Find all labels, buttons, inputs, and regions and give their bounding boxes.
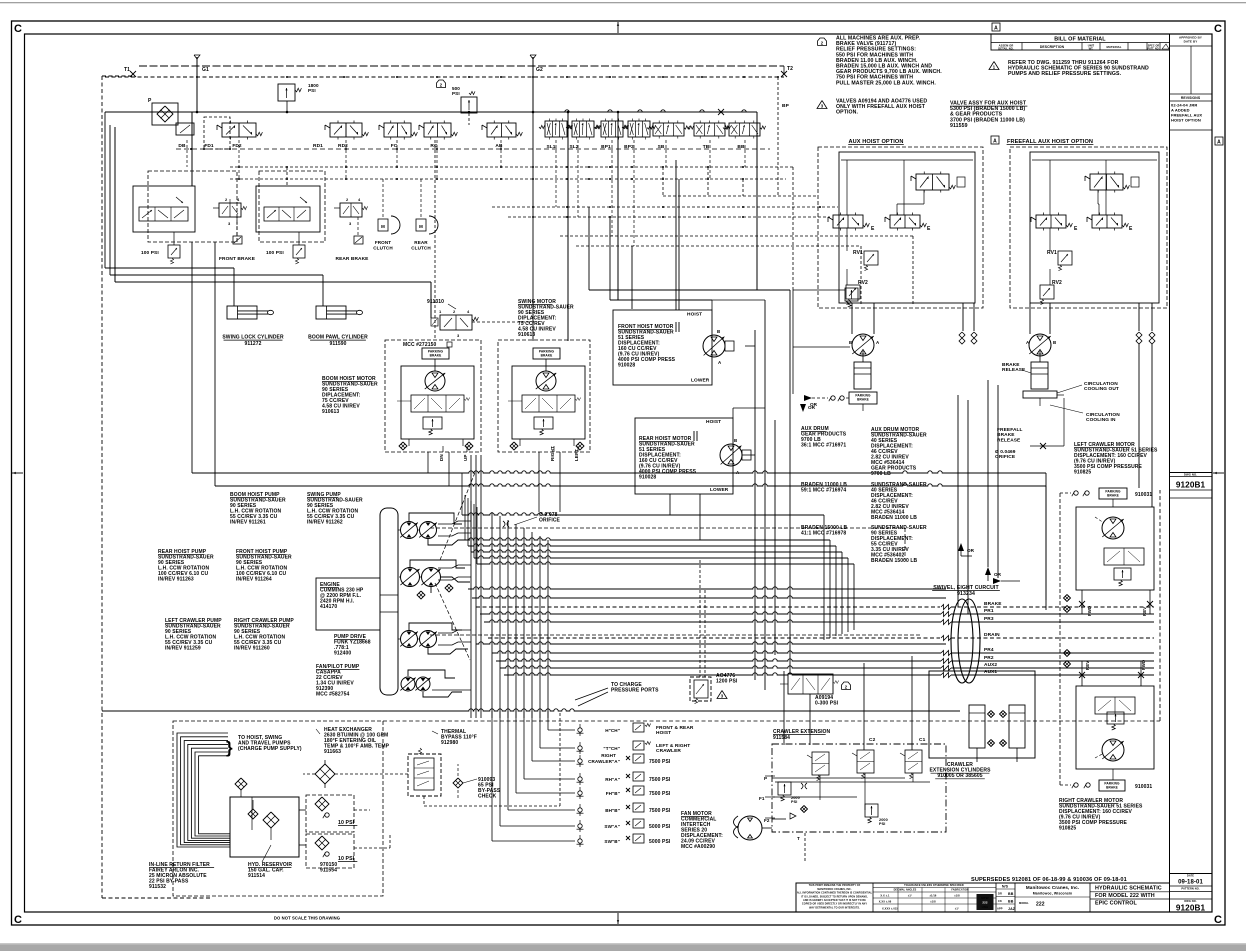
svg-text:IT IS LOANED, SUBJECT TO RETUR: IT IS LOANED, SUBJECT TO RETURN UPON DEM… bbox=[801, 895, 868, 898]
svg-text:FOR MODEL 222 WITH: FOR MODEL 222 WITH bbox=[1095, 893, 1155, 899]
svg-text:59:1 MCC #716974: 59:1 MCC #716974 bbox=[801, 488, 846, 494]
svg-text:REAR: REAR bbox=[414, 240, 428, 245]
fd1 dashed box bbox=[204, 117, 230, 149]
right crawler bottom circuit bbox=[1076, 686, 1154, 769]
dwg number box bottom bbox=[1170, 898, 1213, 900]
svg-text:7500 PSI: 7500 PSI bbox=[649, 791, 671, 797]
svg-text:PR1: PR1 bbox=[984, 608, 994, 614]
svg-text:911590: 911590 bbox=[329, 341, 346, 347]
svg-text:100 PSI: 100 PSI bbox=[266, 250, 284, 256]
svg-text:±1/8: ±1/8 bbox=[954, 894, 960, 898]
svg-text:THIS PRINT REMAINS THE PROPERT: THIS PRINT REMAINS THE PROPERTY OF bbox=[809, 884, 861, 887]
svg-text:MCC #A00290: MCC #A00290 bbox=[681, 844, 715, 850]
aux drum relief bbox=[845, 288, 858, 301]
svg-text:912980: 912980 bbox=[441, 740, 458, 746]
pump control valve body 1 bbox=[133, 186, 195, 232]
svg-text:IN/REV 911261: IN/REV 911261 bbox=[230, 520, 266, 526]
svg-text:B: B bbox=[717, 329, 720, 334]
pilot bus row 1 bbox=[230, 166, 793, 168]
svg-text:100 PSI: 100 PSI bbox=[141, 250, 159, 256]
swing lock cylinder bbox=[105, 267, 234, 269]
svg-text:SW"B": SW"B" bbox=[604, 839, 620, 844]
svg-text:LOWER: LOWER bbox=[710, 487, 729, 493]
vent G1 bbox=[196, 57, 198, 112]
svg-text:CLUTCH: CLUTCH bbox=[411, 246, 431, 251]
svg-text:E: E bbox=[927, 226, 931, 232]
pump drain dashed diagonal bbox=[435, 583, 470, 660]
rear clutch bbox=[416, 219, 426, 231]
svg-text:7500 PSI: 7500 PSI bbox=[649, 759, 671, 765]
svg-text:}: } bbox=[226, 738, 233, 757]
left return dashed loop bbox=[101, 76, 103, 898]
svg-text:PR2: PR2 bbox=[984, 655, 994, 661]
window top edge bbox=[0, 2, 1246, 3]
svg-text:911559: 911559 bbox=[950, 123, 968, 129]
valve SB bbox=[653, 123, 684, 136]
left center tick mark bbox=[12, 472, 23, 474]
valve drop wires bbox=[186, 140, 188, 167]
svg-text:CLUTCH: CLUTCH bbox=[373, 246, 393, 251]
svg-text:PSI: PSI bbox=[452, 91, 460, 96]
swing motor circuit bbox=[498, 340, 590, 452]
svg-text:BRAKE: BRAKE bbox=[430, 354, 442, 358]
svg-text:FREEFALL: FREEFALL bbox=[997, 427, 1023, 433]
svg-text:FH"B": FH"B" bbox=[606, 791, 620, 796]
right center tick mark bbox=[1213, 472, 1224, 474]
crawler ext cylinders bbox=[969, 705, 985, 748]
svg-text:911532: 911532 bbox=[149, 884, 166, 890]
svg-text:910031: 910031 bbox=[1135, 784, 1152, 790]
svg-text:E: E bbox=[1129, 226, 1133, 232]
svg-text:RV1: RV1 bbox=[853, 250, 863, 256]
svg-text:910031: 910031 bbox=[1135, 492, 1152, 498]
svg-text:A: A bbox=[1217, 140, 1221, 146]
svg-text:BRAKE: BRAKE bbox=[984, 601, 1002, 607]
svg-text:HOIST: HOIST bbox=[706, 419, 721, 425]
svg-text:HOIST OPTION: HOIST OPTION bbox=[1171, 118, 1201, 123]
motor drop wires boom swing bbox=[427, 452, 429, 473]
thermal bypass valve bbox=[408, 754, 441, 796]
aux brake cylinder bbox=[854, 362, 871, 389]
aux drum or arrow down bbox=[800, 404, 806, 412]
svg-text:BP: BP bbox=[782, 103, 790, 109]
svg-text:10 PSI: 10 PSI bbox=[338, 820, 355, 826]
svg-text:36:1 MCC #716971: 36:1 MCC #716971 bbox=[801, 443, 846, 449]
svg-text:RH"A": RH"A" bbox=[605, 777, 620, 782]
port symbols column bbox=[633, 723, 644, 732]
aux quick disconnects bbox=[959, 332, 965, 338]
svg-text:RD2: RD2 bbox=[338, 143, 348, 149]
svg-text:G2: G2 bbox=[536, 67, 543, 73]
top center tick mark bbox=[617, 22, 619, 33]
svg-text:FD2: FD2 bbox=[232, 143, 242, 149]
svg-text:BB: BB bbox=[1008, 892, 1014, 896]
svg-text:AUX1: AUX1 bbox=[984, 669, 997, 675]
svg-text:PRESSURE PORTS: PRESSURE PORTS bbox=[611, 688, 659, 694]
zone marker A top bbox=[992, 23, 1000, 31]
svg-text:BRAKE: BRAKE bbox=[1107, 494, 1119, 498]
svg-text:911584: 911584 bbox=[773, 735, 790, 741]
a04776 pilot dashes bbox=[699, 560, 701, 677]
hoist motor wires bbox=[711, 300, 713, 310]
svg-text:PATT. NO.: PATT. NO. bbox=[1147, 47, 1159, 50]
svg-text:RIGHT: RIGHT bbox=[601, 753, 616, 758]
svg-text:X.XX ±.06: X.XX ±.06 bbox=[879, 900, 892, 904]
svg-text:X.XXX ±.015: X.XXX ±.015 bbox=[882, 907, 898, 911]
svg-text:IN/REV 911263: IN/REV 911263 bbox=[158, 577, 194, 583]
svg-text:P: P bbox=[764, 776, 767, 781]
central vertical bundle bbox=[470, 455, 472, 718]
swivel ellipses bbox=[951, 599, 973, 683]
svg-text:Ø 0.0469: Ø 0.0469 bbox=[995, 449, 1016, 455]
svg-text:DO NOT SCALE THIS DRAWING: DO NOT SCALE THIS DRAWING bbox=[274, 916, 340, 921]
svg-text:DN: DN bbox=[439, 454, 444, 461]
aux pilot riser BP bbox=[777, 77, 779, 196]
svg-text:BRAKE: BRAKE bbox=[1002, 362, 1020, 368]
svg-text:BOOM PAWL CYLINDER: BOOM PAWL CYLINDER bbox=[308, 335, 368, 341]
svg-text:FRONT: FRONT bbox=[375, 240, 391, 245]
freefall valves bbox=[1090, 174, 1123, 190]
svg-text:AUX HOIST OPTION: AUX HOIST OPTION bbox=[848, 139, 903, 145]
left pump control dashed box 2 bbox=[259, 171, 325, 242]
svg-text:MTW: MTW bbox=[981, 896, 989, 900]
valve BB bbox=[729, 123, 760, 136]
reservoir filters bbox=[248, 809, 258, 819]
reservoir outlet wires bbox=[299, 809, 306, 811]
svg-text:Manitowoc, Wisconsin: Manitowoc, Wisconsin bbox=[1033, 892, 1073, 896]
svg-text:DR: DR bbox=[998, 892, 1002, 896]
main return line bbox=[102, 709, 960, 711]
freefall quick disconnects bbox=[1136, 332, 1142, 338]
svg-text:USA: USA bbox=[982, 905, 989, 909]
svg-text:911310: 911310 bbox=[427, 299, 444, 305]
svg-text:M: M bbox=[381, 224, 385, 229]
svg-text:SWIVEL, EIGHT CURCUIT: SWIVEL, EIGHT CURCUIT bbox=[933, 585, 999, 591]
svg-text:IN/REV 911262: IN/REV 911262 bbox=[307, 520, 343, 526]
freefall brake cylinder bbox=[1031, 362, 1048, 389]
svg-text:5000 PSI: 5000 PSI bbox=[649, 824, 671, 830]
svg-text:414170: 414170 bbox=[320, 604, 337, 610]
svg-text:N/S: N/S bbox=[1002, 884, 1009, 888]
svg-text:IN/REV 911264: IN/REV 911264 bbox=[236, 577, 272, 583]
svg-text:FD1: FD1 bbox=[204, 143, 214, 149]
svg-text:AUX2: AUX2 bbox=[984, 662, 997, 668]
swing circuit feed wires bbox=[532, 112, 534, 341]
svg-text:COPIED OR USED DIRECTLY OR IND: COPIED OR USED DIRECTLY OR INDIRECTLY IN… bbox=[802, 903, 867, 906]
note 1 triangle bbox=[989, 62, 999, 70]
svg-text:AND IS HEREBY ACCEPTED THAT IT: AND IS HEREBY ACCEPTED THAT IT IS NOT TO… bbox=[803, 899, 866, 902]
svg-text:1200 PSI: 1200 PSI bbox=[716, 679, 738, 685]
svg-text:COOLING OUT: COOLING OUT bbox=[1084, 386, 1119, 392]
bottom gray scrollbar strip bbox=[0, 944, 1246, 951]
note 2 bubble small bbox=[437, 80, 446, 88]
pilot bus row 3 bbox=[492, 206, 838, 208]
check column feed wires bbox=[547, 711, 549, 730]
extension port lines bbox=[772, 777, 905, 779]
svg-text:OPTION.: OPTION. bbox=[836, 110, 858, 116]
valve AB bbox=[487, 123, 516, 137]
svg-text:(CHARGE PUMP SUPPLY): (CHARGE PUMP SUPPLY) bbox=[238, 746, 302, 752]
svg-text:CIRCULATION: CIRCULATION bbox=[1086, 412, 1120, 418]
svg-text:FWD: FWD bbox=[1087, 606, 1092, 616]
svg-text:IN/REV 911260: IN/REV 911260 bbox=[234, 646, 270, 652]
freefall dashed box bbox=[1010, 147, 1167, 308]
stamp block bbox=[977, 894, 994, 910]
svg-text:9120B1: 9120B1 bbox=[1176, 904, 1206, 913]
swivel rows bbox=[476, 606, 940, 608]
bottom crawler parking brake bbox=[1099, 780, 1125, 791]
svg-text:A: A bbox=[993, 139, 997, 145]
rear hoist drop stubs bbox=[669, 494, 671, 515]
rear brake port symbol bbox=[354, 236, 363, 244]
svg-text:DESCRIPTION: DESCRIPTION bbox=[1040, 45, 1065, 49]
svg-text:A: A bbox=[994, 26, 998, 32]
note 2 hexagon bbox=[818, 38, 827, 46]
svg-text:910028: 910028 bbox=[618, 363, 635, 369]
aux hoist option inner box bbox=[839, 152, 975, 303]
front hoist motor box bbox=[613, 310, 712, 385]
svg-text:WAY DETRIMENTAL TO OUR INTERES: WAY DETRIMENTAL TO OUR INTERESTS. bbox=[809, 906, 860, 909]
svg-text:C: C bbox=[14, 23, 22, 35]
svg-text:H"CH": H"CH" bbox=[605, 728, 620, 733]
sl bb dashed subrow bbox=[176, 148, 770, 150]
svg-text:BRAKE: BRAKE bbox=[857, 398, 869, 402]
svg-text:EPIC CONTROL: EPIC CONTROL bbox=[1095, 901, 1138, 907]
svg-text:M: M bbox=[419, 224, 423, 229]
svg-text:MATERIAL: MATERIAL bbox=[1106, 45, 1121, 49]
approval box bbox=[1170, 45, 1213, 47]
svg-text:Manitowoc Cranes, Inc.: Manitowoc Cranes, Inc. bbox=[1026, 885, 1079, 890]
svg-text:B: B bbox=[734, 438, 737, 443]
svg-text:LOWER: LOWER bbox=[691, 378, 710, 384]
svg-text:9700 LB: 9700 LB bbox=[871, 471, 891, 477]
valve RD1 RD2 bbox=[330, 123, 362, 137]
svg-text:09-18-01: 09-18-01 bbox=[1178, 880, 1203, 886]
boom pawl cylinder bbox=[110, 274, 323, 276]
svg-text:F1: F1 bbox=[759, 796, 765, 801]
svg-text:CHECK: CHECK bbox=[478, 794, 497, 800]
svg-text:PSI: PSI bbox=[308, 88, 316, 93]
pump control valve body 2 bbox=[256, 186, 320, 232]
heat exchanger symbol bbox=[315, 764, 335, 784]
svg-text:910028: 910028 bbox=[639, 475, 656, 481]
svg-text:B: B bbox=[1053, 340, 1056, 345]
svg-text:ALL INFORMATION CONTAINED THER: ALL INFORMATION CONTAINED THEREON IS CON… bbox=[797, 892, 873, 895]
svg-text:7500 PSI: 7500 PSI bbox=[649, 777, 671, 783]
svg-text:DETAIL NO.: DETAIL NO. bbox=[998, 46, 1014, 50]
rear hoist motor box bbox=[635, 418, 733, 494]
boom hoist motor circuit bbox=[385, 340, 481, 452]
crawler ext cylinder enclosure bbox=[929, 671, 1035, 758]
svg-text:ORIFICE: ORIFICE bbox=[539, 518, 561, 524]
svg-text:APP: APP bbox=[997, 907, 1003, 911]
relief valve 1800 psi bbox=[278, 84, 295, 101]
svg-text:910825: 910825 bbox=[1074, 470, 1091, 476]
zone marker A right margin bbox=[1215, 137, 1223, 145]
extension reliefs bbox=[778, 782, 791, 795]
svg-text:DWG NO.: DWG NO. bbox=[1184, 899, 1197, 903]
dwg no box mid right bbox=[1170, 472, 1213, 474]
svg-text:LEFT & RIGHT: LEFT & RIGHT bbox=[656, 743, 690, 749]
third cylinder feed line bbox=[114, 127, 116, 282]
reservoir area dashed box bbox=[173, 721, 383, 896]
node T1 bbox=[130, 71, 136, 77]
svg-text:911272: 911272 bbox=[244, 341, 261, 347]
fan pilot pumps bbox=[401, 677, 415, 691]
thermal bypass connections bbox=[423, 796, 425, 806]
svg-text:±1/16: ±1/16 bbox=[930, 894, 937, 898]
sl bp solid drops bbox=[567, 112, 569, 341]
svg-text:MCC #272150: MCC #272150 bbox=[403, 342, 436, 348]
aux hoist option dashed box bbox=[818, 147, 983, 308]
svg-text:910825: 910825 bbox=[1059, 826, 1076, 832]
svg-text:E: E bbox=[871, 226, 875, 232]
top crawler fwd rev bbox=[1079, 601, 1085, 607]
drain dashed bus bbox=[383, 720, 1160, 722]
left feeder wires bbox=[104, 112, 106, 268]
svg-text:PUMPS AND RELIEF PRESSURE SETT: PUMPS AND RELIEF PRESSURE SETTINGS. bbox=[1008, 71, 1122, 77]
svg-text:RD1: RD1 bbox=[313, 143, 323, 149]
svg-text:9120B1: 9120B1 bbox=[1176, 481, 1206, 490]
pilot bus row 5 bbox=[560, 235, 913, 237]
svg-text:OR: OR bbox=[808, 405, 816, 410]
valve BP1 BP2 bbox=[601, 121, 623, 137]
extension valve wires bbox=[775, 781, 930, 783]
rear brake valve bbox=[340, 203, 362, 217]
left pump control dashed box 1 bbox=[148, 171, 237, 242]
svg-text:REV: REV bbox=[1085, 661, 1090, 670]
valve TB bbox=[694, 123, 725, 136]
svg-text:PATTERN NO.: PATTERN NO. bbox=[1181, 886, 1199, 890]
svg-text:E: E bbox=[1074, 226, 1078, 232]
svg-text:FREEFALL AUX HOIST OPTION: FREEFALL AUX HOIST OPTION bbox=[1007, 139, 1093, 145]
svg-text:G1: G1 bbox=[202, 67, 209, 73]
svg-text:BH"B": BH"B" bbox=[605, 808, 620, 813]
boom swing tandem pumps bbox=[401, 522, 418, 539]
note 2 hexagon small bbox=[842, 682, 851, 690]
svg-text:REVISIONS: REVISIONS bbox=[1181, 96, 1201, 100]
right margin strip bbox=[1169, 34, 1171, 912]
svg-text:HYDRAULIC SCHEMATIC: HYDRAULIC SCHEMATIC bbox=[1095, 886, 1162, 892]
svg-text:BRAKE: BRAKE bbox=[997, 432, 1015, 438]
valve DB bbox=[176, 123, 194, 135]
pump output stubs bbox=[438, 521, 471, 524]
svg-text:222: 222 bbox=[982, 901, 988, 905]
pilot bus row 2 bbox=[230, 178, 786, 180]
freefall brake plate bbox=[1023, 391, 1057, 398]
front brake port symbol bbox=[233, 236, 242, 244]
fan motor symbol bbox=[738, 816, 762, 840]
main line drop right bbox=[756, 112, 758, 290]
check valve column bbox=[578, 728, 582, 732]
svg-text:F2: F2 bbox=[764, 818, 770, 823]
front brake valve bbox=[219, 203, 241, 217]
charge supply nest lines bbox=[177, 733, 230, 847]
svg-text:IN/REV 911259: IN/REV 911259 bbox=[165, 646, 201, 652]
pilot bus row 4 bbox=[508, 216, 830, 218]
date box bbox=[1170, 873, 1213, 875]
orifice 0.078 mark bbox=[503, 521, 509, 527]
svg-text:DATE BY: DATE BY bbox=[1184, 40, 1198, 44]
svg-text:CRAWLER"A": CRAWLER"A" bbox=[588, 759, 620, 764]
engine box bbox=[316, 578, 380, 630]
hydraulic reservoir bbox=[230, 797, 299, 857]
svg-text:JAZ: JAZ bbox=[1008, 907, 1016, 911]
bill of material table bbox=[991, 34, 1170, 50]
svg-text:DRAIN: DRAIN bbox=[984, 632, 1000, 638]
svg-text:DECIMAL ANGLES: DECIMAL ANGLES bbox=[894, 889, 917, 892]
svg-text:911514: 911514 bbox=[248, 873, 265, 879]
freefall motor circle bbox=[1029, 334, 1051, 356]
svg-text:±1°: ±1° bbox=[908, 894, 912, 898]
svg-text:7500 PSI: 7500 PSI bbox=[649, 808, 671, 814]
svg-text:T: T bbox=[797, 836, 800, 841]
crawler extension valve box bbox=[772, 744, 946, 832]
svg-text:912400: 912400 bbox=[334, 651, 351, 657]
dashed bus rows center bbox=[430, 527, 905, 529]
svg-text:PSI: PSI bbox=[879, 822, 885, 826]
svg-text:HOIST: HOIST bbox=[687, 312, 702, 318]
svg-text:DATE: DATE bbox=[1187, 874, 1194, 878]
valve FC bbox=[384, 123, 411, 137]
svg-text:BRAKE: BRAKE bbox=[541, 354, 553, 358]
or arrows near swivel bbox=[958, 543, 964, 551]
hoist feed columns bbox=[675, 160, 677, 310]
svg-text:BB: BB bbox=[1008, 900, 1014, 904]
aux drum feed wires bbox=[792, 290, 794, 394]
svg-text:PR4: PR4 bbox=[984, 647, 994, 653]
title block outline bbox=[796, 883, 1170, 912]
svg-text:RV1: RV1 bbox=[1047, 250, 1057, 256]
svg-text:C2: C2 bbox=[869, 737, 876, 743]
vent G2 bbox=[532, 57, 534, 112]
svg-text:WT.: WT. bbox=[1089, 46, 1094, 50]
svg-text:FWD: FWD bbox=[1141, 660, 1146, 670]
node T2 bbox=[781, 71, 787, 77]
svg-text:±1°: ±1° bbox=[955, 907, 959, 911]
note 3 triangle bbox=[817, 101, 827, 109]
svg-text:DWG NO.: DWG NO. bbox=[1184, 473, 1197, 477]
tank line T1-T2 bbox=[139, 65, 784, 67]
bundle rows to swivel upper bbox=[468, 587, 946, 589]
svg-text:COOLING IN: COOLING IN bbox=[1086, 417, 1116, 423]
svg-text:HOIST: HOIST bbox=[656, 730, 671, 736]
bottom crawler fwd rev bbox=[1079, 672, 1085, 678]
valve FD1 FD2 bbox=[222, 123, 256, 137]
svg-text:PR3: PR3 bbox=[984, 616, 994, 622]
freefall option title bbox=[991, 136, 999, 144]
svg-text:PSI: PSI bbox=[791, 800, 797, 804]
svg-text:BRADEN 15000 LB: BRADEN 15000 LB bbox=[871, 558, 918, 564]
crawler riser wires bbox=[1059, 493, 1061, 785]
main pressure line bbox=[105, 111, 757, 113]
right feed risers bbox=[792, 167, 794, 290]
svg-text:T2: T2 bbox=[787, 66, 793, 72]
svg-text:T1: T1 bbox=[124, 67, 130, 73]
svg-text:C1: C1 bbox=[919, 737, 926, 743]
crawler tandem pumps bbox=[401, 631, 418, 648]
svg-text:FRONT BRAKE: FRONT BRAKE bbox=[219, 256, 256, 262]
svg-text:911663: 911663 bbox=[324, 749, 341, 755]
svg-text:BRAKE: BRAKE bbox=[1106, 786, 1118, 790]
svg-text:MANITOWOC CRANES, INC.: MANITOWOC CRANES, INC. bbox=[817, 888, 852, 891]
svg-text:FRONT & REAR: FRONT & REAR bbox=[656, 725, 694, 731]
svg-text:MODEL: MODEL bbox=[1019, 901, 1029, 905]
long distribution wires bbox=[192, 471, 1046, 473]
svg-text:FABRICATION: FABRICATION bbox=[951, 889, 968, 892]
svg-text:222: 222 bbox=[1036, 902, 1045, 908]
svg-text:±1/8: ±1/8 bbox=[930, 900, 936, 904]
